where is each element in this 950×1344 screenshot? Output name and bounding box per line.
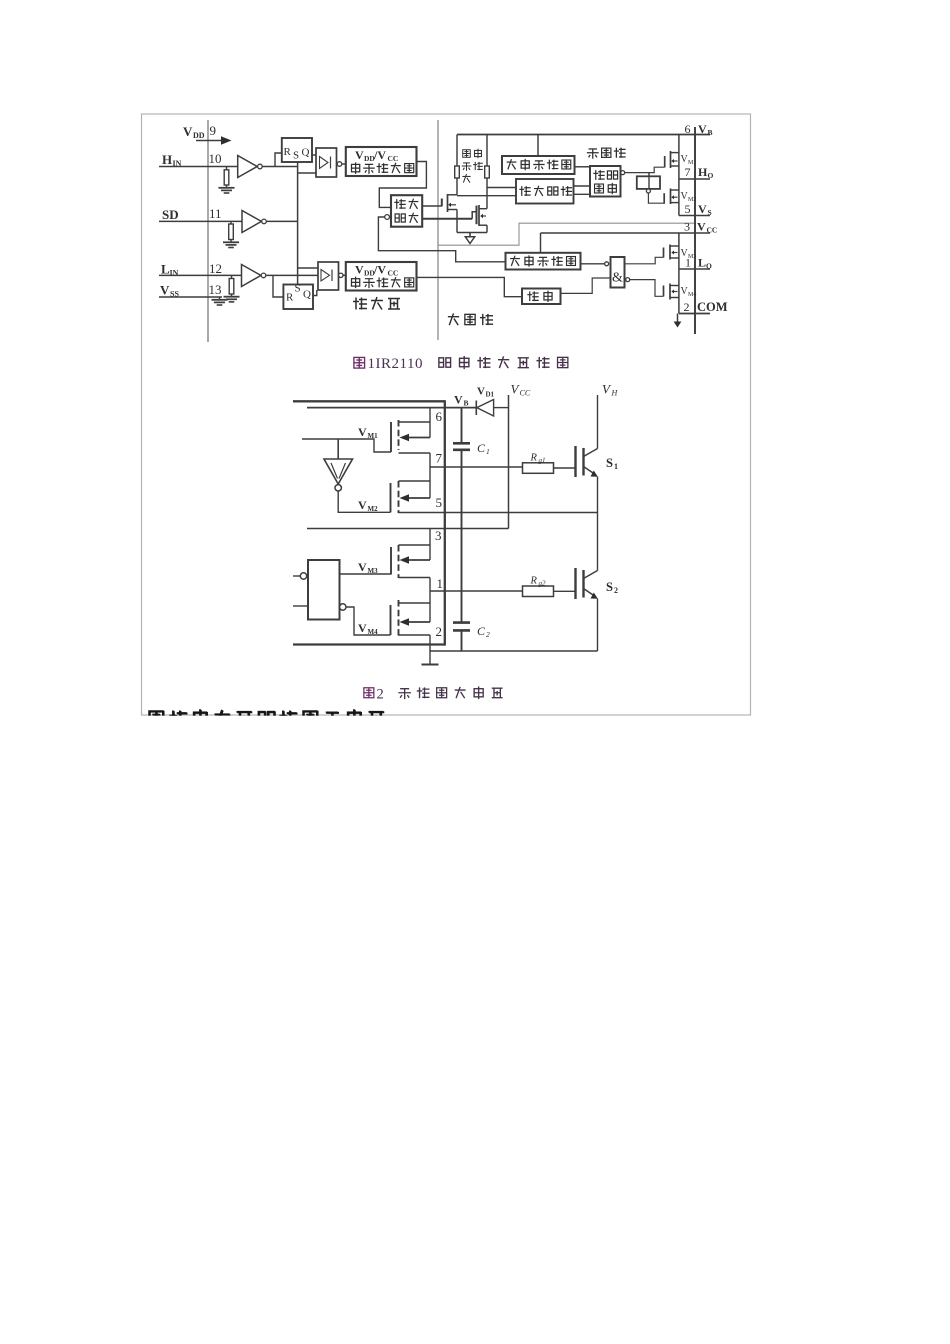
svg-text:Q: Q — [302, 147, 310, 159]
pin SD 11 label — [162, 206, 222, 222]
svg-text:1: 1 — [685, 256, 691, 270]
IGBT S2 — [574, 568, 576, 599]
svg-text:SD: SD — [162, 207, 179, 222]
transistor VM2 — [663, 193, 665, 204]
inverter on LIN — [242, 265, 261, 287]
pin 3 VCC rail — [541, 232, 711, 234]
capacitor C1 — [453, 442, 470, 445]
VS gray return line — [438, 223, 694, 245]
pin 6 VB — [685, 122, 713, 137]
svg-text:2: 2 — [377, 687, 384, 703]
figure 2 caption — [364, 688, 374, 698]
svg-text:2: 2 — [436, 624, 443, 639]
pin LIN 12 label — [161, 261, 222, 278]
wire LIN — [159, 274, 318, 276]
svg-text:M2: M2 — [368, 505, 379, 513]
high side level shift: left branch resistor — [456, 135, 458, 167]
pin 6 stub — [429, 408, 431, 438]
channel divider line — [437, 120, 439, 340]
svg-text:V: V — [477, 386, 485, 398]
svg-text:5: 5 — [436, 495, 443, 510]
svg-text:H: H — [162, 152, 172, 167]
svg-text:V: V — [454, 393, 463, 407]
svg-text:5: 5 — [685, 202, 691, 216]
gate G1 — [316, 148, 337, 177]
undervoltage detect box U10 — [506, 253, 581, 270]
ground under LIN resistor — [231, 294, 233, 296]
svg-text:9: 9 — [210, 123, 217, 138]
Q wire to gate G2 — [313, 290, 317, 296]
wire HIN — [159, 166, 298, 168]
COM ground arrow — [677, 314, 679, 322]
wire U5 output to delay column — [417, 277, 523, 296]
svg-text:L: L — [698, 256, 706, 270]
svg-text:2: 2 — [486, 630, 490, 639]
svg-text:3: 3 — [684, 220, 690, 234]
IGBT S1 — [574, 446, 576, 477]
pin 2 COM — [679, 313, 710, 315]
svg-text:CC: CC — [388, 154, 399, 163]
wire VSS — [159, 296, 222, 298]
wire LIN to RS latch 2 R input — [273, 275, 283, 297]
undervoltage detect box U6 — [502, 156, 575, 174]
input stage label — [353, 297, 400, 310]
VB node label — [454, 393, 469, 408]
svg-text:V: V — [358, 560, 367, 574]
VB rail — [307, 407, 476, 409]
svg-text:V: V — [358, 621, 367, 635]
transistor VM3 (fig2) — [390, 547, 392, 575]
resistor Rg2 — [523, 586, 554, 597]
pulse amplifier box U3 — [391, 195, 422, 227]
svg-text:R: R — [284, 146, 292, 158]
level shifter box U5 (VDD/VCC) — [346, 262, 417, 291]
VB top rail — [457, 134, 710, 136]
svg-text:7: 7 — [685, 165, 691, 179]
ground on VSS — [219, 297, 221, 299]
IC outline top edge — [293, 400, 445, 402]
high side level shift: right branch resistor — [486, 135, 488, 167]
transistor VM1 — [664, 156, 666, 167]
svg-text:B: B — [464, 399, 469, 408]
svg-text:6: 6 — [436, 409, 443, 424]
svg-text:g1: g1 — [539, 457, 546, 465]
svg-text:S: S — [295, 283, 301, 295]
S1/S2 midpoint wire — [597, 513, 599, 571]
resistor on LIN — [231, 275, 233, 278]
svg-text:V: V — [697, 220, 706, 234]
pin 5 row / VS — [399, 512, 598, 514]
delay box U12 — [522, 289, 561, 305]
RS flip-flop U1 — [282, 138, 312, 162]
svg-text:Q: Q — [303, 289, 311, 301]
transistor VM1 (fig2) — [390, 422, 392, 452]
ground bar — [422, 664, 439, 666]
svg-text:V: V — [358, 425, 367, 439]
svg-text:1: 1 — [614, 462, 618, 471]
svg-text:V: V — [183, 124, 193, 139]
svg-text:CC: CC — [388, 269, 399, 278]
transistor VM4 (fig2) — [390, 605, 392, 635]
svg-text:&: & — [612, 271, 623, 286]
lower channel label — [448, 313, 493, 325]
svg-text:2: 2 — [614, 586, 618, 595]
svg-text:COM: COM — [697, 300, 728, 314]
svg-text:13: 13 — [209, 282, 222, 297]
svg-text:1: 1 — [437, 576, 444, 591]
svg-text:B: B — [708, 128, 713, 137]
content box border — [142, 114, 751, 715]
svg-text:/V: /V — [373, 148, 386, 162]
pulse amp outputs — [422, 205, 442, 207]
pin VSS 13 label — [160, 282, 222, 299]
VD1 label — [477, 386, 495, 399]
wire U2 to pulse amp — [379, 162, 426, 208]
VS down arrow — [469, 233, 471, 237]
svg-text:12: 12 — [209, 261, 222, 276]
pin 2 / COM ground stub — [429, 635, 431, 665]
VCC label — [511, 382, 531, 398]
svg-text:CC: CC — [707, 226, 718, 235]
logic latch box U8 — [590, 166, 621, 197]
svg-text:/V: /V — [373, 263, 386, 277]
svg-text:g2: g2 — [539, 580, 547, 588]
S-input vertical bus wire — [297, 162, 299, 285]
VCC vertical wire — [508, 395, 510, 529]
svg-text:V: V — [698, 122, 707, 136]
RS flip-flop U4 — [283, 285, 313, 310]
pin 7 row to Rg1 — [430, 466, 523, 468]
svg-text:M4: M4 — [688, 292, 696, 298]
svg-text:S: S — [606, 456, 613, 470]
svg-text:R: R — [286, 292, 294, 304]
svg-text:V: V — [358, 498, 367, 512]
gate driver box U9 — [637, 176, 660, 189]
input NAND gate (fig2) — [308, 560, 340, 620]
common source link — [457, 232, 487, 234]
wire HIN to RS latch R input — [275, 153, 282, 167]
VDD arrow — [196, 140, 221, 142]
gate G2 — [318, 262, 339, 290]
ground under HIN resistor — [226, 185, 228, 187]
svg-text:V: V — [355, 263, 364, 277]
upper channel label — [587, 148, 626, 159]
figure 1 caption — [354, 357, 365, 368]
svg-text:C: C — [477, 441, 486, 455]
svg-text:2: 2 — [684, 300, 690, 314]
svg-text:3: 3 — [435, 528, 442, 543]
svg-text:D1: D1 — [486, 391, 495, 399]
transistor VM2 (fig2) — [390, 483, 392, 512]
svg-text:O: O — [708, 171, 714, 180]
svg-text:DD: DD — [193, 131, 205, 140]
svg-text:10: 10 — [209, 151, 222, 166]
pin HIN 10 label — [162, 151, 222, 168]
capacitor C2 — [453, 621, 470, 624]
AND gate U11 — [611, 257, 625, 288]
pin 3 stub — [429, 529, 431, 546]
pin 7 HO — [679, 178, 710, 180]
pin 1 row to Rg2 — [430, 590, 523, 592]
inverter on SD — [242, 211, 261, 233]
resistor on HIN — [226, 167, 228, 170]
svg-text:O: O — [706, 262, 712, 271]
svg-text:R: R — [530, 576, 538, 587]
svg-text:11: 11 — [209, 206, 222, 221]
ground under SD resistor — [230, 240, 232, 242]
bootstrap diode VD1 — [475, 401, 477, 416]
transistor VM4 — [663, 286, 665, 297]
svg-text:CC: CC — [520, 389, 531, 398]
inverter on HIN — [238, 156, 258, 178]
IC outline right edge — [444, 400, 446, 645]
svg-text:S: S — [293, 150, 299, 162]
transistor Ma — [447, 194, 449, 212]
resistor on SD — [230, 221, 232, 224]
input inverter (fig2) — [302, 439, 391, 452]
bootstrap cap column — [461, 408, 463, 443]
wire SD — [159, 220, 298, 222]
svg-text:C: C — [477, 624, 486, 638]
svg-text:1: 1 — [486, 447, 490, 456]
COM return line — [430, 650, 598, 652]
transistor VM3 — [663, 248, 665, 258]
level shifter box U2 (VDD/VCC) — [346, 147, 417, 176]
pulse filter box U7 — [516, 179, 574, 204]
svg-text:V: V — [160, 283, 170, 298]
svg-text:H: H — [698, 165, 708, 179]
svg-text:7: 7 — [436, 451, 443, 466]
VCC rail to pin 3 — [307, 528, 509, 530]
transistor Mb — [478, 205, 480, 226]
high level shift label — [462, 149, 483, 183]
IC outline bottom edge — [293, 643, 445, 645]
left pin bus (gray) — [207, 120, 209, 342]
svg-text:V: V — [698, 202, 707, 216]
pin 5 VS — [679, 215, 710, 217]
pin VDD 9 label — [183, 123, 216, 140]
resistor Rg1 — [523, 463, 554, 474]
svg-text:S: S — [606, 580, 613, 594]
M1 source to pin7 column — [399, 452, 431, 454]
svg-text:S: S — [708, 208, 712, 217]
svg-text:M4: M4 — [368, 628, 379, 636]
inverted input bubble and lower feedback wire — [385, 215, 390, 220]
right pin bus — [694, 127, 696, 334]
svg-text:1IR2110: 1IR2110 — [368, 356, 423, 372]
svg-text:V: V — [355, 148, 364, 162]
pin 1 LO — [679, 268, 710, 270]
svg-text:6: 6 — [685, 122, 691, 136]
svg-text:R: R — [530, 453, 538, 464]
